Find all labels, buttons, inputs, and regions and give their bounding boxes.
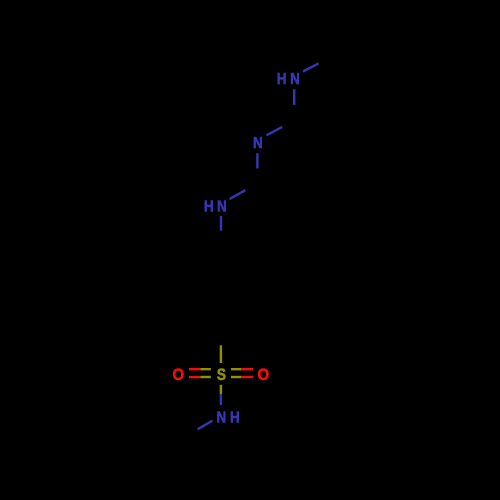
svg-text:N: N (216, 409, 226, 426)
svg-text:S: S (217, 366, 226, 384)
svg-text:H: H (204, 199, 214, 216)
svg-text:N: N (290, 71, 300, 88)
svg-text:N: N (253, 135, 263, 152)
svg-text:N: N (217, 199, 227, 216)
svg-text:H: H (230, 409, 240, 426)
svg-text:H: H (277, 71, 287, 88)
svg-text:O: O (173, 365, 185, 384)
svg-text:O: O (258, 365, 270, 384)
